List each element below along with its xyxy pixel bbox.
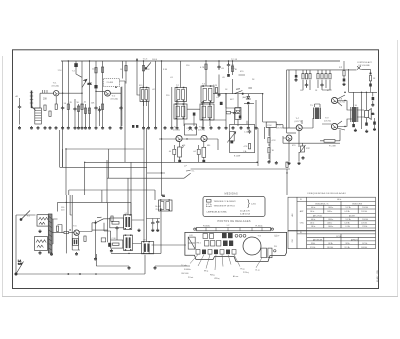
wire: ifrow grounds drops (226, 94, 256, 126)
wire: Tr8 collector to T10 (338, 101, 352, 111)
transformer T ant (35, 108, 42, 124)
wire: drop x137 avc (137, 61, 140, 95)
label values row2 (152, 65, 255, 101)
resistor R19b (102, 67, 104, 72)
ground G60 (268, 160, 271, 163)
capacitor C0 (18, 105, 21, 109)
wire: c24 stub (374, 118, 376, 128)
resistor R24 (321, 74, 323, 79)
resistor R2 (49, 111, 51, 116)
table group divider (288, 229, 376, 232)
ground G15 (120, 126, 123, 129)
wire: drops to T8 (128, 162, 131, 215)
svg-text:.04: .04 (169, 151, 172, 153)
svg-text:.05: .05 (222, 77, 226, 79)
svg-text:Tr.7: Tr.7 (296, 117, 300, 120)
svg-text:21.488: 21.488 (107, 82, 114, 84)
capacitor C17 dark (220, 102, 223, 105)
table cell texts (310, 199, 368, 249)
transistor Tr.1 (52, 81, 59, 96)
svg-text:TENSOES CC A 20KΩ/V: TENSOES CC A 20KΩ/V (214, 200, 237, 203)
wire: drop x219 (218, 61, 220, 93)
ground G61 (275, 161, 278, 164)
junction dot avc (256, 162, 258, 164)
svg-text:(OC44): (OC44) (111, 99, 118, 101)
thermistor NTC (300, 145, 306, 153)
svg-text:2.2K: 2.2K (213, 85, 218, 87)
ground G7 (61, 126, 64, 129)
IF transformer T.4 (174, 104, 187, 119)
resistor R4 (81, 104, 83, 109)
wire: preamp component drops (174, 142, 204, 163)
capacitor C7 (98, 108, 101, 112)
svg-text:FI.460kc: FI.460kc (203, 225, 210, 227)
svg-text:AJUSTE: AJUSTE (349, 214, 355, 217)
svg-text:L.2: L.2 (227, 225, 230, 227)
svg-text:21.91 Mc: 21.91 Mc (361, 211, 367, 213)
wire: Tr9 connections (322, 121, 345, 130)
wire: Tr8 connections (322, 90, 345, 106)
ground G10 (81, 126, 84, 129)
chassis drawing PONTOS DE REGLAGES (181, 220, 287, 280)
pilot lamp V.1 (20, 207, 65, 221)
capacitor C4 (119, 106, 122, 110)
capacitor C34 dark (108, 243, 111, 247)
resistor R20 (302, 74, 304, 79)
chassis right screw (274, 250, 276, 252)
wire: drop x122.5 to osc box (122, 61, 124, 79)
transformer T.8 (124, 213, 132, 229)
svg-text:R.1/2W: R.1/2W (234, 155, 241, 157)
ground G8 (67, 126, 70, 129)
wire: link y190 (69, 190, 155, 202)
ground G33 (371, 103, 374, 106)
ground G27 (225, 126, 228, 129)
svg-text:POS.aj: POS.aj (243, 272, 249, 274)
capacitor C26 (320, 83, 323, 87)
table FM row lines (297, 234, 376, 245)
svg-text:546 kc: 546 kc (310, 223, 315, 225)
svg-text:10K: 10K (91, 103, 95, 105)
loudspeaker LS (365, 109, 375, 120)
diode D1 detector (246, 97, 251, 105)
wire: psu to Tr6 (66, 195, 80, 253)
scan page bottom edge (2, 296, 398, 298)
svg-text:580 kc: 580 kc (311, 226, 316, 228)
wire: can pin stubs (144, 102, 211, 127)
svg-text:20K: 20K (43, 99, 48, 101)
wire: avc line (248, 87, 252, 89)
svg-text:C.30: C.30 (112, 238, 116, 240)
svg-text:6.43 Mc: 6.43 Mc (345, 223, 351, 225)
legend brace (248, 200, 250, 208)
ground G54 (39, 230, 42, 233)
ground G26 (218, 126, 221, 129)
wire: Tr1 emitter (55, 96, 57, 104)
wire: vol box drop (255, 128, 259, 166)
wire: Tr6b wires (269, 127, 303, 161)
ground G24 (202, 126, 205, 129)
transformer T.10 output (351, 105, 358, 122)
svg-text:C.7: C.7 (187, 128, 190, 130)
svg-text:ONDA LARGA + OC: ONDA LARGA + OC (315, 202, 330, 205)
junction dot output (344, 92, 346, 94)
wire: output box bottom (287, 132, 296, 134)
svg-text:1K: 1K (183, 145, 186, 147)
svg-text:108.5 Mc: 108.5 Mc (327, 247, 333, 249)
resistor R3 (67, 104, 69, 109)
svg-text:1400 kc: 1400 kc (328, 226, 334, 228)
ground G55 (39, 251, 42, 254)
svg-text:FM: FM (292, 239, 294, 242)
ground G51 (154, 266, 157, 269)
svg-text:0.2A 50mA: 0.2A 50mA (240, 212, 250, 215)
svg-text:3.3K: 3.3K (163, 69, 168, 71)
svg-text:LPB.aj: LPB.aj (214, 278, 220, 280)
ground G36 (84, 126, 87, 129)
wire: bottom bus audio (16, 255, 145, 274)
capacitor C1 (61, 106, 64, 110)
resistor R13 (125, 66, 127, 71)
wire: output to speaker (357, 110, 364, 117)
chassis right part 2 (268, 248, 272, 258)
ground G70 (151, 229, 154, 232)
svg-text:(OC72): (OC72) (338, 102, 345, 104)
ground G32 (295, 78, 298, 81)
ground G65 (354, 129, 357, 132)
svg-text:T.3: T.3 (202, 84, 206, 86)
wire: routing line y158 (85, 161, 258, 163)
ground G63 (298, 162, 301, 165)
svg-text:L.6V: L.6V (189, 235, 193, 237)
svg-text:4.7K: 4.7K (272, 140, 277, 142)
capacitor C32 (156, 220, 159, 224)
pot bottom blob (230, 140, 233, 143)
legend box MEDIDAS (203, 193, 265, 217)
svg-text:L.P: L.P (184, 166, 188, 168)
svg-text:600 kc: 600 kc (311, 219, 316, 221)
svg-text:546 kc: 546 kc (310, 211, 315, 213)
ground G53 (75, 252, 78, 255)
ground G11 (88, 126, 91, 129)
wire: drop x203 IF column (203, 61, 210, 126)
svg-text:FI.1: FI.1 (139, 85, 143, 87)
capacitor C27 dark (369, 84, 372, 87)
svg-text:Tr.1: Tr.1 (53, 81, 57, 84)
resistor R8 bus (231, 66, 237, 71)
switch X avc (357, 66, 371, 74)
resistor R26 (329, 74, 331, 79)
wire: drop x96 (95, 61, 97, 126)
svg-text:T.C.3: T.C.3 (143, 59, 149, 61)
ground row: G2 (30, 126, 33, 129)
chassis dark square a (222, 233, 227, 238)
capacitor C16 dark (239, 116, 242, 119)
svg-text:(OC45): (OC45) (173, 130, 180, 132)
wire: drop x121 (120, 87, 122, 126)
wire: antenna row wire (32, 93, 83, 108)
transistor Tr.5 (198, 126, 207, 142)
block pin dots (125, 199, 170, 254)
wire: drop x82 (81, 61, 83, 126)
resistor R7 bus (200, 64, 207, 69)
svg-text:4Ω: 4Ω (372, 113, 375, 115)
wire: r44 stub (370, 81, 372, 92)
ground G18 (154, 126, 157, 129)
capacitor C31 (151, 221, 154, 225)
svg-text:C.2: C.2 (231, 65, 235, 67)
wire: drop x171.8 (171, 87, 173, 126)
wire: Tr2 row wire (96, 91, 121, 93)
transistor Tr.8 (331, 97, 345, 103)
wire: drop x75 (74, 99, 76, 126)
capacitor C11 (197, 149, 200, 154)
capacitor C20 dark (295, 75, 298, 78)
resistor R17 horizontal (226, 111, 230, 114)
svg-text:150: 150 (186, 65, 190, 67)
transformer T.2b (124, 235, 133, 250)
ground G62 (288, 162, 291, 165)
ground G30 (247, 126, 250, 129)
svg-text:97.6 Mc: 97.6 Mc (345, 247, 351, 249)
svg-text:470: 470 (240, 71, 244, 73)
capacitor C2 (73, 107, 76, 111)
wire: long vertical x161.5 (161, 61, 163, 196)
svg-text:108 Mc: 108 Mc (328, 243, 333, 245)
svg-text:+ o: + o (258, 235, 262, 238)
wire: chassis feed (152, 244, 187, 246)
bus tick (136, 59, 137, 61)
capacitor C15 (233, 111, 236, 115)
wire: det junction row (244, 103, 254, 105)
junction dot bus2 (79, 273, 81, 275)
variable capacitor TC.1 tuning gang (82, 79, 92, 87)
wire: drop x180.5 (177, 61, 184, 126)
svg-text:87.5 Mc: 87.5 Mc (310, 247, 316, 249)
svg-text:(o) +: (o) + (275, 235, 281, 238)
capacitor C13 dark (136, 125, 138, 128)
wire: detector row (213, 75, 263, 96)
capacitor C10 (173, 149, 176, 154)
svg-text:1546 kc: 1546 kc (327, 211, 333, 213)
capacitor C9 dark (95, 85, 98, 88)
svg-text:TENSOES RF DE PICO: TENSOES RF DE PICO (214, 206, 236, 208)
wire: psu left riser (16, 215, 36, 274)
svg-text:150: 150 (300, 90, 303, 92)
resistor R15 (77, 106, 79, 111)
capacitor C33 (101, 238, 106, 242)
ground G21 (176, 126, 179, 129)
resistor R27 (343, 71, 345, 76)
chassis top row rect b (210, 234, 214, 239)
wire: output box top (289, 69, 371, 128)
block under Tr6 (73, 238, 79, 245)
svg-text:5.97 Mc: 5.97 Mc (346, 219, 352, 221)
IF transformer T.5 (200, 104, 214, 120)
svg-text:10.7 Mc: 10.7 Mc (336, 236, 342, 238)
wire: Tr9 collector to T10 (338, 119, 352, 127)
wire: drop x89.5 (89, 61, 91, 126)
resistor R16 (84, 108, 86, 113)
wire: link y202 (58, 202, 132, 214)
svg-text:220: 220 (166, 95, 170, 97)
svg-text:10.65 Mc: 10.65 Mc (361, 247, 367, 249)
ground G67 (373, 128, 376, 131)
svg-text:CONTROLE AUT.: CONTROLE AUT. (357, 61, 373, 64)
wire: avc vertical x287 (287, 162, 290, 195)
wire: fb resistor link (320, 130, 340, 141)
resistor R44 (369, 76, 371, 81)
capacitor C8 dark (75, 64, 78, 67)
capacitor C21 electrolytic (372, 97, 375, 100)
svg-text:T.10: T.10 (353, 105, 358, 107)
svg-text:FI.450kc: FI.450kc (256, 225, 263, 227)
wire: caps right of T8 (146, 219, 160, 229)
svg-text:1K: 1K (225, 89, 228, 91)
chassis dark square c (223, 241, 228, 247)
wire: drop x148.5 (148, 102, 150, 127)
wire: y266 link (96, 254, 190, 266)
svg-text:7.4: 7.4 (72, 71, 76, 73)
wire: drop x102.6 (102, 61, 104, 126)
transistor Tr.6 (73, 225, 79, 236)
wire: output stage left rail (287, 70, 289, 133)
wire: c8 tail (76, 61, 82, 77)
svg-text:C.14: C.14 (244, 132, 248, 134)
resistor R31 (84, 236, 86, 241)
svg-text:1K: 1K (315, 90, 318, 92)
switch S4 mains2 (95, 217, 104, 223)
wire: long vertical x155.6 (155, 61, 157, 126)
scan page right edge (397, 40, 399, 297)
chassis labels (181, 264, 260, 280)
svg-text:T.1: T.1 (162, 195, 166, 197)
svg-text:J.205: J.205 (251, 203, 257, 205)
wire: drop x126 (125, 61, 127, 84)
svg-text:8.2K: 8.2K (146, 69, 151, 71)
svg-text:17.4: 17.4 (58, 70, 63, 72)
ground G73 (110, 249, 113, 252)
svg-text:LAMPADAS AL NUMA: LAMPADAS AL NUMA (207, 211, 228, 214)
wire: det to pot (263, 122, 283, 128)
svg-text:Tr.2: Tr.2 (112, 94, 116, 97)
svg-text:FM.1: FM.1 (197, 243, 201, 245)
svg-text:(OC72): (OC72) (324, 121, 331, 123)
svg-text:(OC71): (OC71) (276, 128, 283, 130)
transformer T.7 winding box lower (35, 237, 48, 251)
chassis left box (188, 235, 195, 249)
svg-text:ANT: ANT (300, 210, 305, 213)
chassis trimmer row (196, 250, 236, 255)
wire: AF stage y143 (283, 136, 340, 143)
ground G14 (109, 126, 112, 129)
transistor Tr.2 (105, 90, 118, 100)
resistor R21 (305, 74, 307, 79)
drop x228.5 with cap (228, 61, 230, 74)
chassis top row rect a (203, 234, 208, 239)
wire: y253 link (111, 208, 161, 253)
svg-text:T.2: T.2 (176, 85, 180, 87)
svg-text:ONDA CURTA: ONDA CURTA (352, 202, 362, 205)
wire: drop x232.5 (232, 61, 234, 94)
wire: switch to blocks (104, 219, 111, 240)
ground G66 (365, 130, 368, 133)
transistor Tr.6b (276, 124, 292, 141)
svg-text:.05: .05 (221, 68, 225, 70)
resistor R25 (325, 74, 327, 79)
table outer box (288, 197, 376, 248)
svg-text:5.97 Mc: 5.97 Mc (346, 207, 352, 209)
resistor R6 (102, 104, 104, 109)
legend symbol solid box (207, 200, 212, 203)
svg-text:Tr.9: Tr.9 (325, 117, 329, 120)
capacitor C18 (248, 130, 251, 134)
svg-text:(OC71): (OC71) (295, 121, 302, 123)
ground G12 (95, 126, 98, 129)
ground G22 (189, 126, 192, 129)
chassis outline (185, 232, 287, 261)
ground G0 (18, 126, 21, 129)
svg-text:P.B: P.B (274, 246, 277, 248)
svg-text:RF.aj: RF.aj (204, 270, 209, 272)
resistor R40 avc (286, 162, 288, 167)
coupling box A (110, 218, 124, 228)
wire: driver coupling (302, 104, 320, 128)
svg-text:680: 680 (207, 145, 210, 147)
ferrite antenna rod (30, 91, 36, 111)
wire: psu mid links (92, 203, 107, 257)
svg-text:.01: .01 (83, 102, 87, 104)
svg-text:2K: 2K (70, 102, 73, 104)
svg-text:.02: .02 (152, 89, 156, 91)
ground G6 (55, 126, 58, 129)
ground G16 (142, 126, 145, 129)
switch band L.P O.L (184, 171, 191, 179)
svg-text:NTC: NTC (306, 148, 311, 150)
resistor R9 (215, 88, 217, 93)
svg-text:AM: AM (291, 213, 294, 216)
svg-text:.01: .01 (216, 97, 220, 99)
resistor R37 horizontal (64, 231, 69, 233)
pilot lamp L.A (15, 259, 24, 275)
wire: Tr7 base (283, 127, 296, 129)
svg-text:S.1: S.1 (27, 216, 31, 218)
resistor R22 (309, 74, 311, 79)
wire: long vertical x125 (120, 81, 126, 162)
ground G3 (37, 126, 40, 129)
antenna input column (19, 98, 21, 125)
capacitor C28 dark (343, 79, 346, 82)
speaker circle (243, 237, 261, 255)
ground G29 (240, 126, 243, 129)
svg-text:ANT = FI 460: ANT = FI 460 (313, 214, 322, 217)
chassis right part 1 (261, 248, 267, 258)
transformer T.5 driver (310, 105, 321, 119)
svg-text:1446 kc: 1446 kc (327, 223, 333, 225)
oscillator coil dashed box L.osc (104, 79, 120, 88)
IF transformer FI.1 (139, 85, 149, 102)
wire: preamp verticals (144, 128, 147, 242)
capacitor C24 dark (373, 122, 376, 125)
capacitor C25 (305, 83, 308, 87)
resistor R43 fb horizontal (324, 140, 335, 143)
svg-text:4.7K: 4.7K (200, 67, 205, 69)
ground G4 (44, 126, 47, 129)
capacitor C12 dark (132, 125, 134, 128)
resistor R32 (111, 216, 113, 221)
capacitor C6 (227, 63, 230, 67)
chassis dial bar (194, 228, 274, 231)
